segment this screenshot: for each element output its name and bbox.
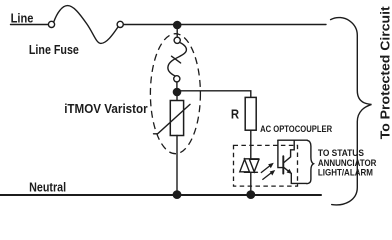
svg-text:LIGHT/ALARM: LIGHT/ALARM [318,168,373,178]
svg-text:Neutral: Neutral [29,180,66,195]
svg-text:TO STATUS: TO STATUS [318,148,364,158]
svg-text:Line Fuse: Line Fuse [29,43,79,57]
svg-text:R: R [231,107,239,121]
svg-text:iTMOV Varistor: iTMOV Varistor [64,102,148,116]
svg-text:To Protected Circuit: To Protected Circuit [377,6,392,140]
svg-text:AC OPTOCOUPLER: AC OPTOCOUPLER [260,124,332,135]
svg-text:Line: Line [11,12,34,26]
svg-text:ANNUNCIATOR: ANNUNCIATOR [318,158,377,168]
